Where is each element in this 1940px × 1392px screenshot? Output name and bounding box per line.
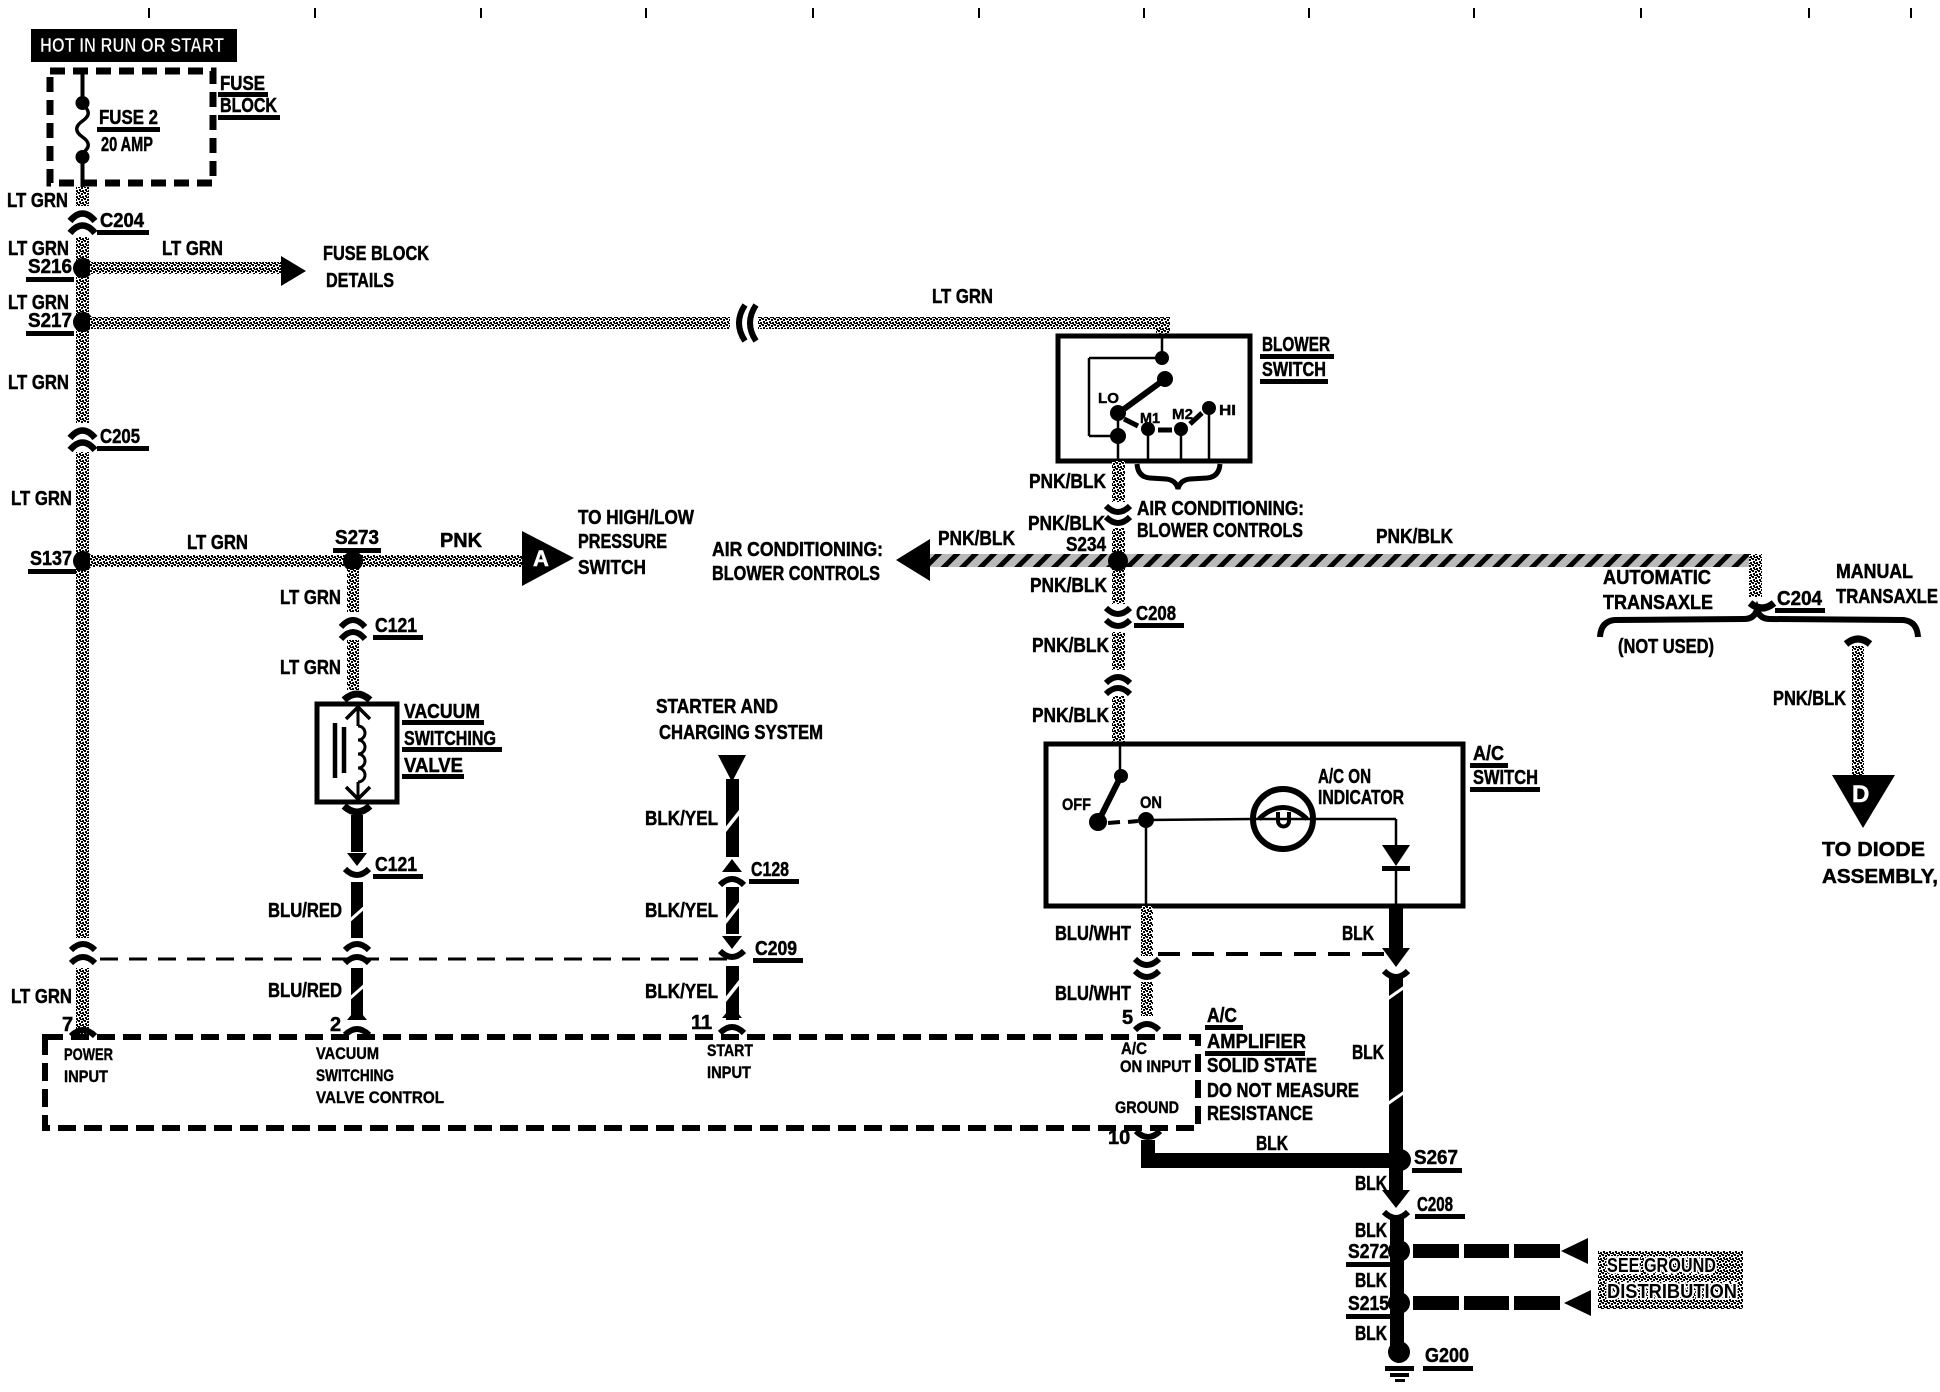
wire BLU/RED valve to amplifier pin 2 [348, 815, 366, 1018]
splice S273 [343, 551, 363, 571]
svg-text:LT GRN: LT GRN [162, 238, 223, 260]
label C205 [97, 426, 149, 451]
svg-text:SWITCHING: SWITCHING [316, 1066, 394, 1085]
connector on BLU/RED at C209 line [342, 938, 372, 968]
blower switch box [1058, 336, 1250, 461]
svg-text:S273: S273 [335, 527, 379, 549]
A/C switch internals [1089, 746, 1396, 904]
connector C128 [717, 857, 747, 887]
connector C208 on PNK/BLK [1105, 604, 1133, 632]
label S217 [26, 310, 74, 336]
svg-text:LT GRN: LT GRN [11, 986, 72, 1008]
dashed connector line C209 [100, 958, 730, 961]
svg-text:TRANSAXLE: TRANSAXLE [1836, 586, 1938, 608]
svg-text:C121: C121 [375, 854, 417, 876]
pin 10 chevron [1136, 1131, 1160, 1137]
wire from fuse to box edge [81, 157, 85, 187]
svg-text:PNK/BLK: PNK/BLK [1376, 526, 1453, 548]
pin 2 chevron [345, 1008, 369, 1035]
svg-text:STARTER AND: STARTER AND [656, 696, 778, 718]
svg-text:M2: M2 [1172, 406, 1193, 423]
svg-text:POWER: POWER [64, 1045, 113, 1064]
label C208 [1134, 603, 1184, 628]
svg-text:SWITCH: SWITCH [1262, 359, 1326, 381]
wire PNK/BLK horizontal main [930, 554, 1762, 567]
svg-text:C121: C121 [375, 615, 417, 637]
arrow to fuse block details [281, 256, 306, 286]
connector on LT GRN trunk at C209 line [70, 938, 98, 968]
svg-text:DETAILS: DETAILS [326, 270, 394, 292]
svg-text:LO: LO [1098, 390, 1119, 407]
svg-text:S216: S216 [28, 256, 72, 278]
svg-text:FUSE 2: FUSE 2 [99, 107, 158, 129]
svg-text:AIR CONDITIONING:: AIR CONDITIONING: [1137, 498, 1304, 520]
label S215 [1346, 1293, 1394, 1319]
diode in A/C switch [1382, 845, 1410, 871]
vacuum switching valve U1 [317, 704, 397, 802]
svg-text:LT GRN: LT GRN [11, 488, 72, 510]
svg-text:HI: HI [1219, 402, 1236, 419]
svg-text:LT GRN: LT GRN [280, 587, 341, 609]
svg-text:A/C: A/C [1473, 743, 1504, 765]
wire LT GRN left vertical trunk [76, 187, 89, 1038]
connector chevron at C204 [1750, 603, 1774, 608]
wire LT GRN S273 down to vacuum switching valve [347, 569, 359, 690]
label S234 [1064, 534, 1112, 559]
dashed connector line C208 right [1158, 952, 1390, 956]
connector on PNK/BLK lower [1105, 670, 1133, 696]
svg-text:PRESSURE: PRESSURE [578, 531, 667, 553]
arrow D to diode assembly [1832, 775, 1895, 828]
svg-text:OFF: OFF [1062, 795, 1091, 814]
wire LT GRN S216 to fuse block details [90, 262, 282, 274]
svg-text:HOT IN RUN OR START: HOT IN RUN OR START [40, 35, 224, 57]
svg-text:S215: S215 [1348, 1293, 1389, 1315]
connector C208 on BLK [1382, 1190, 1410, 1218]
wire BLK ground from pin 10 to S267 [1141, 1140, 1397, 1168]
svg-text:S272: S272 [1348, 1241, 1389, 1263]
svg-text:G200: G200 [1425, 1345, 1469, 1367]
fuse block (dashed box) [50, 71, 213, 183]
svg-text:PNK/BLK: PNK/BLK [938, 528, 1015, 550]
label S273 [333, 527, 381, 553]
svg-text:PNK/BLK: PNK/BLK [1032, 635, 1109, 657]
svg-text:VACUUM: VACUUM [316, 1044, 379, 1063]
svg-text:S234: S234 [1066, 534, 1107, 556]
label MANUAL TRANSAXLE [1836, 561, 1938, 608]
svg-text:BLK: BLK [1355, 1270, 1387, 1292]
label S137 [28, 548, 76, 574]
label BLOWER SWITCH [1260, 334, 1334, 384]
connector C209 on BLK/YEL [717, 934, 747, 966]
svg-text:BLOWER CONTROLS: BLOWER CONTROLS [1137, 520, 1303, 542]
svg-text:BLK: BLK [1355, 1173, 1387, 1195]
connector arc at valve bottom [344, 806, 370, 812]
label HOT IN RUN OR START [31, 29, 237, 62]
arrow from starter system [718, 755, 746, 782]
label A/C AMPLIFIER SOLID STATE [1205, 1005, 1359, 1125]
svg-text:BLK: BLK [1342, 923, 1374, 945]
connector on PNK/BLK [1105, 502, 1133, 528]
lamp A/C ON indicator [1253, 789, 1313, 849]
pin 7 chevron [71, 1030, 95, 1036]
svg-text:SOLID STATE: SOLID STATE [1207, 1055, 1317, 1077]
label G200 [1423, 1345, 1473, 1371]
splice S215 [1388, 1292, 1410, 1314]
svg-text:10: 10 [1108, 1127, 1130, 1149]
wire break hop [730, 305, 758, 341]
svg-text:PNK/BLK: PNK/BLK [1032, 705, 1109, 727]
svg-text:AUTOMATIC: AUTOMATIC [1603, 567, 1711, 589]
A/C switch box [1046, 744, 1463, 906]
dashed wire S272 to ground distribution [1413, 1238, 1588, 1264]
svg-text:A/C: A/C [1121, 1039, 1147, 1058]
svg-text:INPUT: INPUT [64, 1067, 109, 1086]
splice S234 [1108, 551, 1128, 571]
svg-text:A: A [533, 546, 549, 571]
svg-text:BLK: BLK [1355, 1220, 1387, 1242]
label VACUUM SWITCHING VALVE CONTROL [316, 1044, 444, 1107]
svg-text:ON INPUT: ON INPUT [1120, 1057, 1192, 1076]
connector on BLU/WHT [1134, 956, 1160, 982]
brace under blower switch terminals [1137, 464, 1220, 489]
dashed wire S215 to ground distribution [1413, 1290, 1591, 1316]
svg-text:TRANSAXLE: TRANSAXLE [1603, 592, 1713, 614]
label SEE GROUND DISTRIBUTION [1598, 1251, 1743, 1309]
splice S216 [73, 258, 93, 278]
svg-text:AMPLIFIER: AMPLIFIER [1207, 1031, 1307, 1053]
label A/C SWITCH [1470, 743, 1540, 792]
svg-text:PNK/BLK: PNK/BLK [1030, 575, 1107, 597]
label S216 [26, 256, 74, 282]
label C128 [749, 859, 799, 884]
label AUTOMATIC TRANSAXLE [1603, 567, 1713, 614]
label FUSE BLOCK [218, 73, 280, 120]
label VACUUM SWITCHING VALVE [402, 701, 502, 779]
label AIR CONDITIONING: BLOWER CONTROLS [1137, 498, 1304, 542]
svg-text:BLU/RED: BLU/RED [268, 900, 342, 922]
svg-text:DISTRIBUTION: DISTRIBUTION [1607, 1281, 1737, 1303]
label AIR CONDITIONING: BLOWER CONTROLS left [712, 539, 883, 585]
svg-text:LT GRN: LT GRN [932, 286, 993, 308]
svg-text:5: 5 [1122, 1007, 1133, 1029]
splice S272 [1388, 1240, 1410, 1262]
svg-text:CHARGING SYSTEM: CHARGING SYSTEM [659, 722, 823, 744]
wire BLK A/C switch down to S267 [1382, 906, 1410, 1192]
svg-text:PNK/BLK: PNK/BLK [1029, 471, 1106, 493]
amplifier dashed box [45, 1037, 1198, 1128]
label FUSE 2 [97, 107, 160, 132]
blower switch internals [1089, 338, 1216, 459]
svg-text:C208: C208 [1136, 603, 1176, 625]
label POWER INPUT [64, 1045, 113, 1086]
connector C204 [68, 206, 97, 237]
svg-text:PNK: PNK [440, 530, 483, 552]
svg-text:S267: S267 [1414, 1147, 1458, 1169]
wire BLK/YEL starter to amplifier pin 11 [723, 779, 742, 1020]
ground G200 [1385, 1341, 1414, 1382]
svg-text:LT GRN: LT GRN [187, 532, 248, 554]
wire BLK C208 to G200 [1390, 1219, 1404, 1352]
svg-text:2: 2 [330, 1014, 341, 1036]
wire into fuse [81, 71, 85, 105]
svg-text:TO DIODE: TO DIODE [1822, 839, 1925, 861]
wire PNK/BLK down to diode assembly [1852, 646, 1864, 776]
svg-text:BLK: BLK [1256, 1133, 1288, 1155]
svg-text:FUSE BLOCK: FUSE BLOCK [323, 243, 429, 265]
arrow A to high/low pressure switch [522, 531, 574, 586]
svg-text:SEE GROUND: SEE GROUND [1607, 1255, 1716, 1277]
wire LT GRN S217 to blower switch [90, 317, 1170, 338]
svg-text:BLU/WHT: BLU/WHT [1055, 923, 1131, 945]
svg-text:A/C ON: A/C ON [1318, 766, 1371, 788]
svg-text:BLK: BLK [1355, 1323, 1387, 1345]
svg-text:BLOWER CONTROLS: BLOWER CONTROLS [712, 563, 880, 585]
svg-text:BLOCK: BLOCK [220, 95, 277, 117]
pin 5 chevron [1135, 1024, 1159, 1030]
label TO HIGH/LOW PRESSURE SWITCH [578, 507, 694, 579]
splice S267 [1389, 1149, 1411, 1171]
splice S217 [73, 312, 93, 332]
label C209 [753, 938, 803, 963]
svg-text:FUSE: FUSE [220, 73, 265, 95]
label START INPUT [707, 1041, 754, 1082]
label S267 [1412, 1147, 1462, 1173]
svg-text:SWITCHING: SWITCHING [404, 728, 496, 750]
svg-text:VALVE CONTROL: VALVE CONTROL [316, 1088, 444, 1107]
svg-text:LT GRN: LT GRN [8, 372, 69, 394]
label A/C ON INDICATOR [1318, 766, 1404, 809]
svg-text:C209: C209 [755, 938, 797, 960]
svg-text:(NOT USED): (NOT USED) [1618, 636, 1714, 658]
svg-text:C204: C204 [1777, 588, 1823, 610]
svg-text:AIR CONDITIONING:: AIR CONDITIONING: [712, 539, 883, 561]
connector C121 [340, 612, 368, 640]
svg-text:20 AMP: 20 AMP [101, 134, 153, 156]
label TO DIODE ASSEMBLY, [1822, 839, 1938, 888]
svg-text:S137: S137 [30, 548, 72, 570]
wire BLU/WHT A/C switch to amplifier pin 5 [1141, 906, 1153, 1016]
label FUSE BLOCK DETAILS [323, 243, 429, 292]
connector arc at valve top [344, 694, 370, 700]
svg-text:PNK/BLK: PNK/BLK [1773, 688, 1846, 710]
fuse FUSE 2 symbol [76, 96, 90, 164]
svg-text:INPUT: INPUT [707, 1063, 752, 1082]
svg-text:SWITCH: SWITCH [1473, 767, 1538, 789]
svg-text:M1: M1 [1140, 410, 1160, 427]
wire LT GRN S137 to S273 and PNK to arrow A [90, 555, 522, 567]
svg-text:BLU/RED: BLU/RED [268, 980, 342, 1002]
arrow to air conditioning blower controls [896, 539, 930, 581]
svg-text:BLK: BLK [1352, 1042, 1384, 1064]
svg-text:BLK/YEL: BLK/YEL [645, 900, 718, 922]
svg-text:SWITCH: SWITCH [578, 557, 646, 579]
svg-text:MANUAL: MANUAL [1836, 561, 1913, 583]
pin 11 chevron [720, 1006, 744, 1033]
label C204 [97, 210, 149, 235]
label S272 [1346, 1241, 1394, 1267]
svg-text:C128: C128 [751, 859, 789, 881]
svg-text:7: 7 [62, 1014, 73, 1036]
svg-text:BLK/YEL: BLK/YEL [645, 981, 718, 1003]
svg-text:ON: ON [1140, 793, 1162, 812]
svg-text:GROUND: GROUND [1115, 1098, 1179, 1117]
svg-text:ASSEMBLY,: ASSEMBLY, [1822, 866, 1938, 888]
label C121 [373, 615, 423, 640]
svg-text:LT GRN: LT GRN [7, 190, 68, 212]
svg-text:C204: C204 [100, 210, 145, 232]
svg-text:TO HIGH/LOW: TO HIGH/LOW [578, 507, 694, 529]
svg-text:RESISTANCE: RESISTANCE [1207, 1103, 1313, 1125]
svg-text:BLK/YEL: BLK/YEL [645, 808, 718, 830]
svg-text:LT GRN: LT GRN [280, 657, 341, 679]
wire PNK/BLK blower switch to A/C switch [1112, 461, 1125, 743]
connector C121 lower [342, 852, 372, 882]
svg-text:DO NOT MEASURE: DO NOT MEASURE [1207, 1080, 1359, 1102]
svg-text:VACUUM: VACUUM [404, 701, 480, 723]
svg-text:BLU/WHT: BLU/WHT [1055, 983, 1131, 1005]
label A/C ON INPUT [1120, 1039, 1192, 1076]
svg-text:START: START [707, 1041, 754, 1060]
svg-text:11: 11 [691, 1012, 712, 1034]
connector C205 [68, 423, 97, 452]
brace automatic/manual transaxle [1600, 610, 1918, 637]
label C204 [1775, 588, 1825, 613]
splice S137 [73, 551, 93, 571]
svg-text:INDICATOR: INDICATOR [1318, 787, 1404, 809]
svg-text:PNK/BLK: PNK/BLK [1028, 513, 1105, 535]
svg-text:S217: S217 [28, 310, 72, 332]
svg-text:BLOWER: BLOWER [1262, 334, 1330, 356]
label C208 [1415, 1194, 1465, 1219]
label STARTER AND CHARGING SYSTEM [656, 696, 823, 744]
wire PNK/BLK corner down to C204 [1749, 554, 1762, 597]
svg-text:C205: C205 [100, 426, 140, 448]
svg-text:C208: C208 [1417, 1194, 1453, 1216]
svg-text:D: D [1852, 781, 1869, 808]
connector chevron under brace [1846, 639, 1870, 644]
svg-text:A/C: A/C [1207, 1005, 1237, 1027]
label C121 [373, 854, 423, 879]
svg-text:VALVE: VALVE [404, 755, 463, 777]
